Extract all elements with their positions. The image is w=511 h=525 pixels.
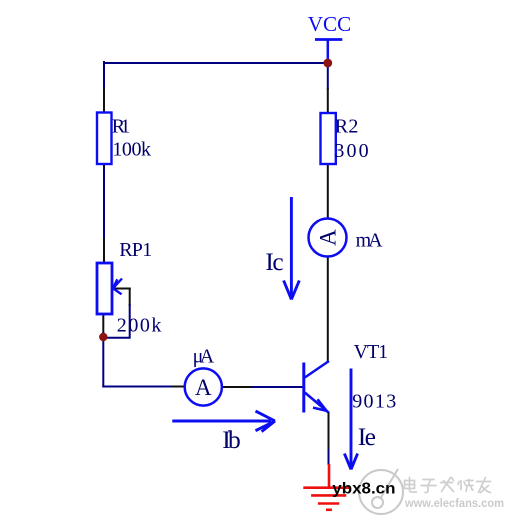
svg-text:R2: R2: [335, 116, 359, 138]
svg-text:200k: 200k: [117, 314, 162, 336]
svg-text:100k: 100k: [112, 139, 151, 161]
svg-text:VT1: VT1: [354, 341, 389, 363]
svg-text:300: 300: [334, 140, 368, 162]
svg-text:mA: mA: [356, 229, 384, 251]
svg-text:Ic: Ic: [265, 248, 283, 276]
svg-text:Ie: Ie: [358, 422, 376, 451]
svg-text:9013: 9013: [352, 391, 396, 413]
svg-text:A: A: [315, 229, 340, 246]
svg-text:RP1: RP1: [119, 239, 152, 261]
svg-text:μA: μA: [193, 345, 215, 367]
svg-text:ybx8.cn: ybx8.cn: [332, 481, 395, 498]
svg-text:VCC: VCC: [308, 12, 351, 36]
svg-text:R1: R1: [112, 115, 131, 137]
svg-text:Ib: Ib: [222, 425, 241, 454]
svg-text:A: A: [195, 375, 212, 400]
svg-text:www.elecfans.com: www.elecfans.com: [404, 498, 504, 510]
